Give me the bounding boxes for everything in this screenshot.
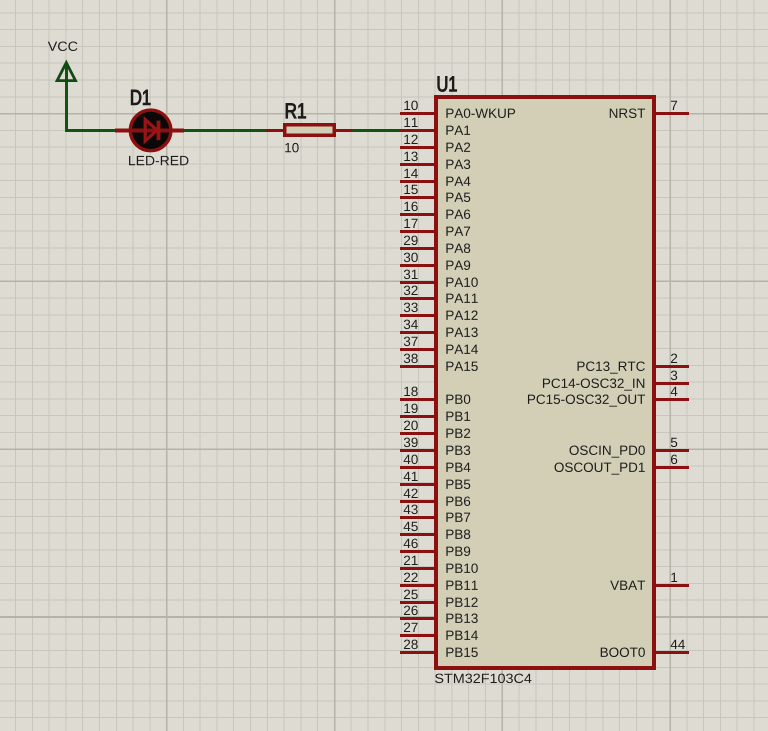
pin 25 PB12 (400, 590, 478, 607)
label D1 (131, 90, 150, 105)
pin 41 PB5 (400, 472, 470, 489)
pin 45 PB8 (400, 522, 470, 539)
label STM32F103C4 (435, 674, 531, 684)
pin 38 PA15 (400, 354, 478, 371)
pin 34 PA13 (400, 320, 478, 337)
pin 13 PA3 (400, 152, 470, 169)
pin 46 PB9 (400, 539, 470, 556)
node corner of VCC wire (65, 129, 68, 132)
IC U1 STM32F103C4 body (436, 97, 654, 668)
pin 40 PB4 (400, 455, 470, 472)
label LED-RED (129, 156, 188, 165)
pin 2 PC13_RTC (577, 354, 689, 374)
resistor R1 pin wires (266, 129, 353, 132)
pin 39 PB3 (400, 438, 470, 455)
pin 10 PA0-WKUP (400, 101, 515, 118)
LED D1 pin wires (115, 129, 184, 133)
pin 21 PB10 (400, 556, 478, 573)
pin 37 PA14 (400, 337, 478, 354)
pin 12 PA2 (400, 135, 470, 152)
resistor R1 body (285, 125, 334, 136)
pin 31 PA10 (400, 270, 478, 287)
pin 3 PC14-OSC32_IN (543, 371, 689, 391)
pin 17 PA7 (400, 219, 470, 236)
pin 15 PA5 (400, 185, 470, 202)
pin 30 PA9 (400, 253, 470, 270)
pin 20 PB2 (400, 421, 470, 438)
pin 42 PB6 (400, 489, 470, 506)
pin 33 PA12 (400, 303, 478, 320)
pin 1 VBAT (610, 573, 689, 590)
pin 43 PB7 (400, 505, 470, 522)
wire VCC corner to LED (65, 129, 116, 132)
pin 29 PA8 (400, 236, 470, 253)
wire VCC stem (65, 64, 68, 131)
pin 28 PB15 (400, 640, 478, 657)
wire LED to R1 (184, 129, 266, 132)
pin 5 OSCIN_PD0 (570, 438, 689, 458)
pin 19 PB1 (400, 404, 470, 421)
pin 7 NRST (610, 101, 689, 118)
pin 6 OSCOUT_PD1 (555, 455, 689, 475)
label value 10 (285, 143, 298, 153)
label U1 (438, 77, 457, 92)
pin 27 PB14 (400, 623, 478, 640)
label R1 (286, 103, 306, 118)
pin 44 BOOT0 (601, 640, 689, 657)
pin 26 PB13 (400, 606, 478, 623)
pin 16 PA6 (400, 202, 470, 219)
pin 4 PC15-OSC32_OUT (528, 387, 689, 407)
pin 32 PA11 (400, 286, 478, 303)
LED D1 body (115, 110, 184, 151)
wire R1 to U1 pin 11 (352, 129, 401, 132)
pin 14 PA4 (400, 169, 470, 186)
power symbol VCC (48, 41, 78, 80)
pin 11 PA1 (400, 118, 470, 135)
pin 22 PB11 (400, 573, 478, 590)
pin 18 PB0 (400, 387, 470, 404)
